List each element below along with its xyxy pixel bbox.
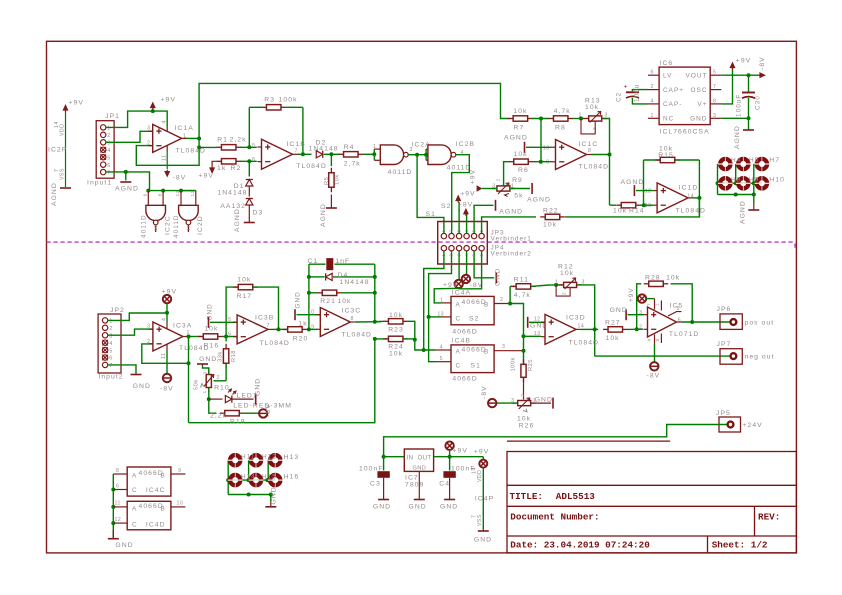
wire JP4 pin4 -8V supply [466, 251, 468, 274]
svg-text:R28: R28 [645, 274, 661, 281]
title block [507, 452, 796, 553]
power +9V at IC1A [152, 105, 154, 110]
resistor R1 [216, 146, 221, 148]
frame border [47, 41, 797, 553]
connector JP1 [96, 121, 114, 179]
svg-text:7: 7 [647, 303, 652, 306]
svg-text:+9V: +9V [470, 169, 477, 184]
wire JP3 pin3 +9V [458, 202, 460, 233]
svg-text:8: 8 [351, 316, 354, 322]
hole H6 [757, 159, 767, 169]
svg-text:33k: 33k [218, 351, 224, 362]
wire IC4 node to IC3D - [524, 335, 542, 337]
IC IC4D 4066D [127, 501, 171, 530]
svg-text:4011D: 4011D [141, 214, 148, 238]
svg-text:Date: 23.04.2019 07:24:20: Date: 23.04.2019 07:24:20 [510, 540, 650, 551]
power symbol IC4P [481, 456, 483, 458]
svg-text:1N4148: 1N4148 [309, 146, 339, 153]
wire IC3A output [188, 336, 202, 338]
wire to IC4B pin4 [415, 340, 424, 350]
svg-text:5: 5 [228, 317, 231, 323]
svg-text:R6: R6 [518, 167, 529, 174]
svg-text:4: 4 [107, 148, 111, 154]
nand gate IC2B [425, 149, 427, 160]
svg-text:H14: H14 [241, 474, 256, 481]
svg-text:IC6: IC6 [660, 60, 674, 67]
svg-text:ADL5513: ADL5513 [556, 491, 595, 502]
potentiometer R9 [492, 188, 497, 190]
svg-text:TL071D: TL071D [669, 331, 699, 338]
svg-text:R20: R20 [293, 336, 309, 343]
svg-text:7: 7 [267, 323, 270, 329]
resistor R15 [644, 159, 661, 161]
svg-text:GND: GND [133, 383, 151, 390]
svg-text:10k: 10k [389, 351, 403, 358]
wire JP1 pin1 to +9V rail [106, 111, 167, 127]
svg-text:R27: R27 [605, 320, 621, 327]
connector JP3 [438, 222, 488, 243]
svg-text:H15: H15 [262, 474, 277, 481]
svg-text:+9V: +9V [736, 58, 751, 65]
svg-text:H9: H9 [749, 177, 759, 184]
svg-text:10: 10 [177, 500, 184, 506]
svg-text:GND: GND [412, 465, 426, 471]
svg-text:9: 9 [546, 160, 549, 166]
svg-text:H13: H13 [284, 454, 300, 461]
wire JP4 pin2 to IC4B C [429, 251, 452, 362]
svg-text:2: 2 [449, 229, 454, 232]
svg-text:13: 13 [645, 203, 652, 209]
svg-text:B: B [161, 473, 166, 480]
svg-text:R23: R23 [388, 327, 404, 334]
potentiometer R13 [584, 118, 589, 120]
svg-text:1: 1 [373, 144, 376, 150]
power -8V at IC1A [166, 152, 168, 170]
svg-text:neg out: neg out [745, 354, 775, 361]
op-amp IC1C [556, 140, 587, 170]
resistor R27 [595, 328, 599, 330]
wire R10 bottom node [208, 388, 210, 400]
hole H10 [757, 178, 767, 188]
svg-text:-8V: -8V [647, 373, 661, 380]
wire C1 right rail [374, 264, 376, 322]
resistor R25 [523, 359, 525, 364]
wire VOUT to -8V [721, 74, 758, 76]
svg-text:C2: C2 [616, 92, 623, 102]
power -8V under IC5 [654, 344, 656, 362]
wire IC4C/D left rail [112, 474, 114, 538]
svg-text:4066D: 4066D [462, 299, 487, 306]
svg-text:-8V: -8V [759, 56, 766, 70]
svg-text:R18: R18 [231, 350, 237, 362]
resistor R2 [216, 160, 221, 162]
resistor R7 [508, 118, 513, 120]
diode D2 [316, 151, 323, 158]
svg-text:H4: H4 [731, 157, 741, 164]
diode D1 [248, 161, 250, 176]
svg-text:-8V: -8V [481, 385, 488, 399]
svg-text:TL084D: TL084D [342, 332, 372, 339]
svg-text:IC4C: IC4C [146, 487, 166, 494]
potentiometer R26 [513, 402, 518, 404]
svg-text:2: 2 [373, 155, 376, 161]
svg-text:1: 1 [109, 319, 113, 325]
svg-text:AGND: AGND [504, 135, 528, 142]
op-amp IC1B [262, 139, 293, 169]
svg-text:100nF: 100nF [359, 466, 384, 473]
wire IC1A feedback [136, 139, 199, 166]
svg-text:+9V: +9V [474, 449, 489, 456]
svg-text:8: 8 [157, 193, 163, 196]
potentiometer R12 [549, 284, 556, 286]
svg-text:VDD: VDD [60, 124, 66, 136]
wire IC1B output [297, 153, 312, 155]
svg-text:6: 6 [116, 484, 119, 490]
svg-text:12: 12 [534, 317, 541, 323]
resistor R8 [548, 118, 553, 120]
svg-text:AGND: AGND [527, 197, 551, 204]
svg-text:1: 1 [651, 113, 654, 119]
svg-text:10k: 10k [613, 208, 627, 215]
svg-text:H10: H10 [769, 177, 785, 184]
svg-text:12: 12 [115, 517, 122, 523]
wire IC1C output [591, 154, 610, 156]
svg-text:100u: 100u [634, 84, 641, 102]
svg-text:GND: GND [373, 504, 391, 511]
svg-text:12: 12 [645, 189, 652, 195]
svg-text:13: 13 [175, 190, 181, 196]
op-amp IC1D [657, 183, 688, 213]
svg-text:IC3C: IC3C [342, 308, 362, 315]
svg-text:8: 8 [116, 468, 119, 474]
svg-text:GND: GND [255, 378, 262, 396]
wire JP4 pin3 +9V supply [458, 251, 460, 280]
svg-text:IC1D: IC1D [679, 185, 699, 192]
svg-text:R22: R22 [543, 208, 559, 215]
wire JP1 pin7 to AGND and gates [106, 171, 126, 173]
svg-text:4011D: 4011D [173, 214, 180, 238]
svg-text:10k: 10k [517, 416, 531, 423]
svg-text:10k: 10k [389, 312, 403, 319]
svg-text:10k: 10k [514, 151, 528, 158]
svg-text:IN: IN [407, 455, 414, 462]
svg-text:4: 4 [162, 318, 168, 321]
hole H16 [270, 475, 280, 485]
svg-text:S1: S1 [426, 211, 436, 218]
capacitor C2 [632, 90, 648, 92]
ground AGND under R5 [330, 195, 332, 208]
connector JP2 [98, 314, 121, 373]
wire IC5 output to JP6 [681, 321, 730, 323]
svg-text:10: 10 [543, 145, 550, 151]
svg-text:IC4B: IC4B [452, 338, 471, 345]
wire JP2 pin3 to IC3A + [108, 329, 153, 335]
svg-text:H16: H16 [284, 474, 300, 481]
wire regulator input [384, 456, 405, 458]
svg-text:OUT: OUT [418, 455, 432, 462]
op-amp IC3D [545, 314, 576, 344]
svg-text:2,7k: 2,7k [344, 161, 361, 168]
svg-text:C1: C1 [308, 258, 319, 265]
resistor R21 [309, 292, 318, 294]
svg-text:4: 4 [647, 338, 652, 341]
JP4 pin 1 [441, 246, 446, 251]
svg-text:7: 7 [713, 84, 716, 90]
wire R7R8 node down to R6 [540, 119, 542, 162]
ground GND at IC5 + [625, 309, 627, 320]
resistor R14 [610, 204, 617, 206]
svg-text:C: C [132, 522, 138, 529]
svg-text:A: A [132, 506, 137, 513]
svg-text:VSS: VSS [477, 514, 483, 526]
ground AGND under pads [753, 203, 755, 210]
wire GND pin to AGND [721, 117, 748, 119]
JP4 pin 4 [464, 246, 469, 251]
svg-text:TITLE:: TITLE: [510, 491, 543, 502]
svg-text:1N4148: 1N4148 [340, 279, 370, 286]
wire S1 from IC2A out to JP3 [417, 155, 444, 234]
svg-text:1: 1 [202, 390, 208, 393]
svg-text:2: 2 [562, 292, 568, 295]
svg-text:+24V: +24V [743, 422, 763, 429]
IC IC6 ICL7660CSA [659, 67, 710, 125]
pad group H4-H10 wires [717, 164, 719, 195]
resistor R5 [330, 154, 332, 166]
hole H15 [251, 475, 261, 485]
svg-text:JP7: JP7 [717, 341, 732, 348]
svg-text:JP2: JP2 [110, 307, 125, 314]
svg-text:4,7k: 4,7k [514, 292, 531, 299]
ground GND under pads H [270, 501, 272, 506]
svg-text:2: 2 [107, 133, 111, 139]
power +9V at R9 [482, 188, 497, 190]
resistor R22 [540, 216, 545, 218]
op-amp IC3C [320, 308, 350, 337]
svg-text:1nF: 1nF [335, 258, 350, 265]
capacitor C30 [748, 75, 750, 91]
svg-text:R19: R19 [230, 419, 246, 426]
ground GND under IC4 rail [112, 530, 114, 538]
wire IC2A out to IC2B in [417, 154, 426, 156]
svg-text:GND: GND [535, 397, 553, 404]
svg-text:4: 4 [109, 341, 113, 347]
resistor R4 [339, 153, 344, 155]
ground IC7 GND pin [418, 471, 420, 499]
svg-text:C30: C30 [755, 95, 762, 110]
svg-text:CAP+: CAP+ [663, 87, 684, 94]
ground AGND under D3 [248, 205, 250, 222]
svg-text:NC: NC [663, 116, 674, 123]
svg-text:GND: GND [610, 307, 628, 314]
svg-text:4: 4 [440, 345, 443, 351]
wire R12 to IC3D output node [577, 285, 595, 356]
op-amp IC5 [648, 307, 677, 337]
svg-text:100k: 100k [511, 357, 517, 371]
svg-text:+9V: +9V [460, 191, 475, 198]
svg-text:R10: R10 [214, 385, 230, 392]
svg-text:3: 3 [713, 113, 716, 119]
power -8V at R26 [497, 402, 518, 404]
resistor R28 feedback [637, 284, 642, 330]
wire IC1D output [693, 197, 700, 199]
svg-text:AGND: AGND [320, 203, 327, 227]
resistor R16 [198, 336, 203, 338]
power +9V at R2 [212, 161, 216, 166]
svg-text:C4: C4 [439, 481, 450, 488]
svg-text:R5: R5 [324, 177, 330, 185]
svg-text:3: 3 [410, 147, 413, 153]
JP3 pin 4 [464, 233, 469, 238]
svg-text:100uF: 100uF [736, 94, 743, 117]
svg-text:4066D: 4066D [452, 329, 477, 336]
svg-text:AGND: AGND [499, 209, 523, 216]
svg-text:IC1C: IC1C [579, 141, 599, 148]
ground AGND at R9 pin1 [510, 188, 530, 190]
connector JP6 [720, 314, 742, 330]
svg-text:Sheet: 1/2: Sheet: 1/2 [712, 540, 768, 551]
svg-text:B: B [484, 349, 489, 356]
wire JP2 pin7 to GND [108, 365, 136, 374]
wire R22 to IC1D output [565, 198, 699, 217]
svg-text:10: 10 [308, 309, 315, 315]
svg-text:LV: LV [663, 72, 672, 79]
JP4 pin 2 [449, 246, 454, 251]
svg-text:-8V: -8V [173, 175, 187, 182]
svg-text:3: 3 [109, 333, 113, 339]
svg-text:4: 4 [162, 120, 168, 123]
svg-text:1: 1 [579, 113, 582, 119]
wire bottom rail to R24 [189, 339, 375, 423]
wire IC4A out node down to IC3D [508, 302, 512, 306]
svg-text:10k: 10k [585, 104, 599, 111]
svg-text:C: C [456, 316, 462, 323]
op-amp IC3A [153, 322, 183, 351]
svg-text:6: 6 [678, 318, 681, 324]
svg-text:+9V: +9V [628, 287, 635, 302]
potentiometer R10 [214, 380, 227, 382]
svg-text:10k: 10k [337, 298, 351, 305]
connector JP4 [438, 242, 488, 264]
JP3 pin 5 [471, 233, 476, 238]
wire JP3 pin5 to AGND [474, 205, 493, 233]
svg-text:Verbinder2: Verbinder2 [491, 251, 532, 258]
svg-text:IC1B: IC1B [287, 141, 306, 148]
svg-text:GND: GND [295, 291, 302, 308]
svg-text:R14: R14 [629, 208, 645, 215]
svg-text:AGND: AGND [115, 186, 139, 193]
svg-text:2: 2 [217, 375, 220, 381]
svg-text:Verbinder1: Verbinder1 [491, 236, 532, 243]
svg-text:+9V: +9V [69, 100, 84, 107]
wire C1 left rail [308, 264, 310, 329]
svg-text:V+: V+ [697, 101, 707, 108]
svg-text:IC3A: IC3A [173, 323, 192, 330]
svg-text:TL084D: TL084D [259, 340, 289, 347]
svg-text:8: 8 [655, 338, 660, 341]
svg-text:10k: 10k [335, 174, 341, 185]
resistor R11 [509, 286, 511, 303]
wire IC3D output [581, 328, 595, 330]
wire JP5 +24V to regulator [384, 425, 727, 457]
svg-text:H5: H5 [749, 157, 759, 164]
svg-text:GND: GND [207, 303, 214, 320]
svg-text:JP6: JP6 [717, 306, 732, 313]
svg-text:8: 8 [713, 98, 716, 104]
wire R13 to IC1C output node [603, 119, 610, 155]
svg-text:5: 5 [440, 356, 443, 362]
wire JP1 pin3 to IC1A +input [106, 131, 153, 142]
svg-text:5: 5 [677, 306, 680, 312]
svg-text:H7: H7 [769, 157, 780, 164]
svg-text:IC2D: IC2D [197, 215, 204, 235]
separator dashed line [47, 241, 796, 243]
svg-text:IC2P: IC2P [48, 147, 67, 154]
svg-text:VDD: VDD [477, 470, 483, 482]
op-amp IC1A [153, 124, 182, 152]
power -8V under IC3A [166, 351, 168, 375]
svg-text:IC3D: IC3D [566, 315, 586, 322]
svg-text:4011D: 4011D [388, 169, 413, 176]
svg-text:12: 12 [190, 190, 196, 196]
svg-text:A: A [456, 349, 461, 356]
svg-text:2: 2 [651, 84, 654, 90]
svg-text:2: 2 [496, 178, 502, 181]
power +9V to V+ pin [721, 69, 732, 104]
svg-text:S1: S1 [471, 363, 481, 370]
svg-text:10k: 10k [204, 326, 218, 333]
resistor R18 [225, 337, 227, 342]
svg-text:10k: 10k [513, 108, 527, 115]
svg-text:TL084D: TL084D [569, 340, 599, 347]
wire R10 node to R19 [209, 399, 217, 413]
JP4 pin 6 [479, 246, 484, 251]
svg-text:1: 1 [183, 133, 186, 139]
svg-text:6: 6 [107, 163, 111, 169]
svg-text:10k: 10k [606, 335, 620, 342]
svg-text:R16: R16 [204, 343, 220, 350]
svg-text:JP1: JP1 [105, 113, 120, 120]
svg-text:-8V: -8V [160, 386, 174, 393]
svg-text:IC1A: IC1A [175, 125, 194, 132]
svg-text:R4: R4 [344, 144, 355, 151]
svg-text:2: 2 [520, 393, 526, 396]
svg-text:5: 5 [252, 143, 255, 149]
svg-text:D4: D4 [338, 272, 349, 279]
svg-text:5k: 5k [514, 193, 523, 200]
capacitor C4 [449, 457, 451, 471]
svg-text:R3: R3 [264, 97, 275, 104]
svg-text:H11: H11 [241, 454, 255, 461]
resistor R3 feedback [248, 107, 250, 147]
svg-text:TL084D: TL084D [176, 148, 206, 155]
hole H8 [720, 178, 730, 188]
ground GND at R10 top [203, 365, 209, 375]
wire JP3 pin4 -8V [466, 215, 468, 234]
svg-text:-8V: -8V [265, 403, 272, 417]
svg-text:C3: C3 [370, 481, 381, 488]
svg-text:OSC: OSC [691, 87, 708, 94]
svg-text:1: 1 [555, 279, 558, 285]
svg-text:10k: 10k [237, 277, 251, 284]
svg-text:6: 6 [252, 157, 255, 163]
svg-text:AGND: AGND [51, 182, 58, 206]
resistor R24 [373, 337, 377, 341]
svg-text:1: 1 [441, 229, 446, 232]
svg-text:+: + [624, 84, 629, 91]
svg-text:9: 9 [311, 324, 314, 330]
JP4 pin 5 [471, 246, 476, 251]
wire R13 wiper loop [581, 119, 595, 134]
